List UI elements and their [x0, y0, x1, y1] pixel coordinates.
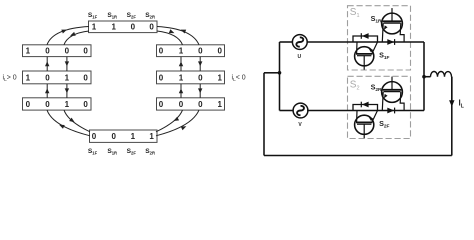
svg-text:1: 1: [65, 73, 70, 82]
svg-text:1: 1: [26, 47, 31, 56]
svg-text:1: 1: [217, 73, 222, 82]
svg-text:0: 0: [83, 100, 88, 109]
svg-text:0: 0: [92, 132, 97, 141]
svg-text:0: 0: [159, 73, 164, 82]
svg-text:0: 0: [131, 23, 136, 32]
svg-text:1: 1: [217, 100, 222, 109]
svg-text:1: 1: [131, 132, 136, 141]
svg-text:0: 0: [198, 73, 203, 82]
svg-text:1: 1: [179, 73, 184, 82]
svg-text:0: 0: [159, 100, 164, 109]
svg-text:0: 0: [26, 100, 31, 109]
svg-text:1: 1: [26, 73, 31, 82]
svg-text:0: 0: [83, 73, 88, 82]
svg-text:0: 0: [83, 47, 88, 56]
svg-text:0: 0: [179, 100, 184, 109]
svg-text:1: 1: [111, 23, 116, 32]
svg-text:0: 0: [159, 47, 164, 56]
svg-text:0: 0: [45, 47, 50, 56]
svg-text:1: 1: [65, 100, 70, 109]
svg-text:0: 0: [198, 100, 203, 109]
svg-text:0: 0: [45, 73, 50, 82]
svg-text:1: 1: [149, 132, 154, 141]
svg-text:0: 0: [45, 100, 50, 109]
svg-text:0: 0: [217, 47, 222, 56]
svg-text:U: U: [297, 54, 301, 60]
svg-text:0: 0: [111, 132, 116, 141]
svg-text:0: 0: [65, 47, 70, 56]
svg-text:1: 1: [92, 23, 97, 32]
svg-text:1: 1: [179, 47, 184, 56]
svg-text:0: 0: [149, 23, 154, 32]
svg-text:0: 0: [198, 47, 203, 56]
